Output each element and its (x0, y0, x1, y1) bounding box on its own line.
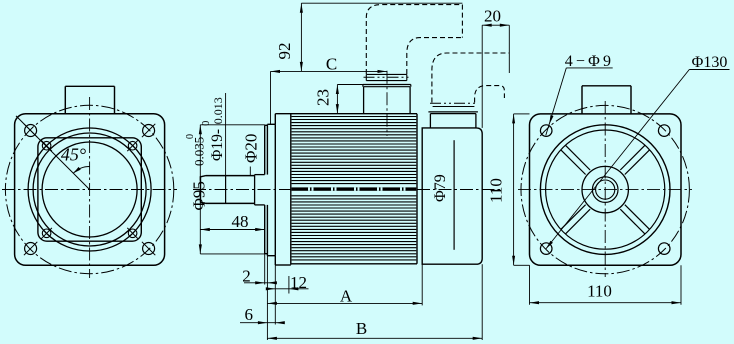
front view circle spigot (42, 142, 137, 237)
label phi20 (249, 167, 251, 176)
rear view hub outer (582, 166, 628, 212)
rear view flange square (530, 114, 682, 265)
cable elbow2 inner (475, 86, 505, 103)
svg-text:110: 110 (487, 178, 506, 203)
rear view mounting holes (540, 125, 552, 137)
dimension 48 (200, 229, 264, 231)
svg-text:Φ130: Φ130 (692, 54, 728, 71)
front view circle middle (33, 133, 146, 246)
rear housing (422, 128, 482, 264)
svg-text:0.013: 0.013 (211, 97, 225, 124)
dimension 6 (240, 322, 283, 324)
connector1 phantom neck (366, 73, 407, 75)
dimension A (267, 302, 422, 304)
label phi19 tolerance (225, 93, 227, 176)
svg-text:4−Φ9: 4−Φ9 (565, 53, 615, 70)
fan cowl line phi79 (453, 140, 455, 250)
cable elbow1 outer (366, 5, 462, 74)
rear view hub middle (592, 177, 618, 203)
rear view connector boss (581, 86, 583, 114)
connector2 mating line2 (433, 106, 475, 108)
svg-text:Φ95-: Φ95- (190, 175, 209, 210)
connector2 body (429, 114, 431, 128)
cable elbow2 outer (432, 53, 509, 103)
front view mounting holes (25, 125, 37, 137)
svg-text:92: 92 (275, 43, 294, 60)
front view body square (38, 138, 141, 241)
shaft centerline (193, 189, 291, 191)
flange boss phi95 (266, 124, 268, 174)
flange plate (274, 114, 276, 125)
dimension 92 (300, 3, 302, 71)
dimension C (271, 70, 388, 72)
front view vertical centerline (89, 97, 91, 278)
dimension 110 horizontal (530, 302, 682, 304)
shaft top edge (206, 175, 255, 177)
cable elbow1 inner (407, 38, 463, 74)
svg-text:A: A (340, 286, 353, 305)
svg-text:Φ19-: Φ19- (209, 129, 226, 161)
connector1 body (363, 87, 365, 114)
rear view hub inner (596, 180, 615, 199)
dimension 23 (336, 85, 338, 114)
body top edge (275, 113, 417, 115)
front view circle outer (28, 128, 151, 251)
rear view vertical centerline (604, 101, 606, 277)
dimension 2 (244, 282, 276, 284)
body bottom edge (291, 263, 417, 265)
svg-text:Φ79: Φ79 (432, 174, 449, 202)
svg-text:0.035: 0.035 (192, 137, 207, 166)
body centerline band (292, 187, 417, 190)
connector2 flange (428, 111, 478, 113)
fins right edge (416, 114, 418, 264)
rear centerline (417, 189, 500, 191)
front view flange square (15, 114, 165, 266)
svg-text:20: 20 (484, 6, 501, 25)
cooling fins (292, 116, 417, 118)
connector2 mating line1 (430, 102, 477, 104)
connector1 flange (363, 84, 411, 86)
svg-text:0: 0 (201, 121, 212, 126)
connector1 centerline (386, 71, 388, 136)
svg-text:12: 12 (290, 273, 307, 292)
dimension 110 vertical (513, 114, 515, 265)
fins left edge (290, 114, 292, 265)
front view hole centerline slashes (24, 124, 37, 137)
shaft step dia19 dia20 (225, 176, 227, 204)
rear view horizontal centerline (518, 189, 692, 191)
rear view fan cover outer (540, 125, 670, 255)
front view body screw holes (42, 141, 51, 150)
svg-text:48: 48 (232, 212, 249, 231)
svg-text:110: 110 (587, 282, 612, 301)
front view 45 degree line (16, 116, 90, 190)
shaft shoulder (254, 175, 256, 205)
svg-text:Φ20: Φ20 (242, 134, 261, 163)
svg-text:23: 23 (314, 89, 333, 106)
connector1 mating line (364, 76, 410, 78)
svg-text:45°: 45° (61, 145, 86, 165)
extension line B right (481, 264, 483, 340)
shaft end face (200, 177, 202, 202)
svg-text:6: 6 (244, 305, 253, 324)
dimension phi95 (199, 125, 201, 254)
svg-text:2: 2 (242, 267, 251, 286)
extension line flange face (266, 256, 268, 340)
svg-text:C: C (326, 54, 337, 73)
svg-text:0: 0 (185, 134, 196, 139)
dimension 20 (482, 24, 509, 26)
cable elbow1 end (461, 5, 463, 38)
rear view fan cover inner rim (546, 130, 665, 249)
dimension B (267, 337, 482, 339)
svg-text:B: B (356, 319, 367, 338)
front view horizontal centerline (2, 189, 177, 191)
shaft bottom edge (206, 202, 255, 204)
angle arc 45 (73, 166, 89, 173)
rear view fan spokes (625, 205, 650, 230)
front view connector boss (64, 86, 66, 113)
front view bolt circle (5, 105, 173, 273)
spigot boss (264, 125, 266, 174)
dimension 12 (268, 288, 309, 290)
rear view bolt circle (521, 105, 689, 273)
